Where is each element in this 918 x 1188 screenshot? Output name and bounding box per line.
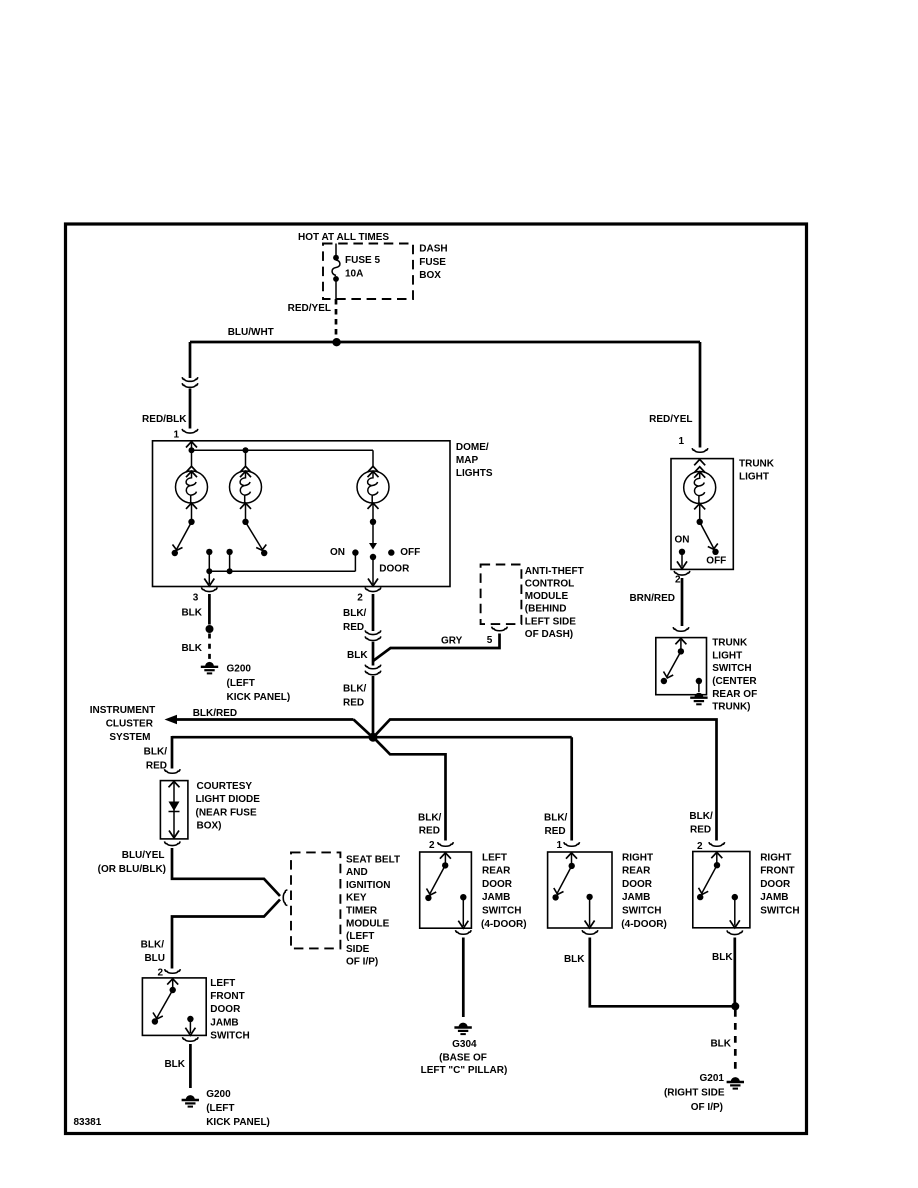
svg-text:BLK: BLK [712,952,733,963]
svg-text:CLUSTER: CLUSTER [106,719,154,730]
svg-text:BLU/WHT: BLU/WHT [228,327,274,338]
svg-text:TRUNK: TRUNK [739,458,775,469]
svg-text:1: 1 [556,840,562,851]
svg-text:IGNITION: IGNITION [346,880,390,891]
svg-text:83381: 83381 [74,1117,102,1128]
svg-text:BLK/: BLK/ [544,813,568,824]
svg-text:OF I/P): OF I/P) [691,1102,723,1113]
svg-text:(4-DOOR): (4-DOOR) [481,919,527,930]
svg-text:BLK/RED: BLK/RED [193,708,237,719]
svg-text:OFF: OFF [400,547,420,558]
svg-text:MAP: MAP [456,455,479,466]
svg-text:LIGHT DIODE: LIGHT DIODE [196,794,261,805]
svg-text:LIGHT: LIGHT [739,471,769,482]
svg-text:DOOR: DOOR [482,879,513,890]
svg-text:OF I/P): OF I/P) [346,957,378,968]
svg-text:RED/YEL: RED/YEL [288,303,331,314]
svg-text:BLK/: BLK/ [343,608,367,619]
svg-text:(CENTER: (CENTER [712,676,757,687]
svg-text:RED: RED [343,622,364,633]
svg-text:(LEFT: (LEFT [227,678,255,689]
svg-text:SWITCH: SWITCH [210,1030,249,1041]
svg-text:(NEAR FUSE: (NEAR FUSE [196,807,257,818]
svg-text:COURTESY: COURTESY [197,781,253,792]
svg-text:RED: RED [690,824,711,835]
svg-text:2: 2 [675,575,681,586]
svg-text:DOOR: DOOR [210,1004,241,1015]
svg-text:LEFT SIDE: LEFT SIDE [525,616,576,627]
svg-text:REAR: REAR [622,866,651,877]
svg-text:AND: AND [346,867,368,878]
svg-text:DOME/: DOME/ [456,442,489,453]
svg-text:BLK: BLK [181,607,202,618]
svg-text:DOOR: DOOR [622,879,653,890]
svg-text:RED: RED [419,825,440,836]
svg-text:LEFT: LEFT [482,852,507,863]
svg-text:2: 2 [697,841,703,852]
svg-text:DASH: DASH [419,243,447,254]
svg-text:GRY: GRY [441,636,463,647]
svg-text:CONTROL: CONTROL [525,579,574,590]
svg-text:DOOR: DOOR [760,879,791,890]
svg-text:BLK: BLK [181,643,202,654]
svg-text:1: 1 [678,436,684,447]
svg-text:RED: RED [146,761,167,772]
svg-text:SYSTEM: SYSTEM [109,732,150,743]
svg-text:SWITCH: SWITCH [622,906,661,917]
svg-text:RED/BLK: RED/BLK [142,414,187,425]
svg-text:REAR OF: REAR OF [712,689,757,700]
svg-text:OFF: OFF [706,555,726,566]
svg-text:BLU/YEL: BLU/YEL [122,850,165,861]
svg-text:BLU: BLU [144,953,165,964]
svg-text:(4-DOOR): (4-DOOR) [621,919,667,930]
svg-text:(BEHIND: (BEHIND [525,604,567,615]
svg-text:(LEFT: (LEFT [346,931,374,942]
svg-text:JAMB: JAMB [210,1017,238,1028]
svg-text:SIDE: SIDE [346,944,370,955]
svg-text:ON: ON [330,547,345,558]
svg-text:TRUNK): TRUNK) [712,702,750,713]
svg-text:LEFT: LEFT [210,978,235,989]
svg-text:2: 2 [357,592,363,603]
svg-text:JAMB: JAMB [482,892,510,903]
svg-text:BLK/: BLK/ [343,684,367,695]
svg-text:RED: RED [545,826,566,837]
svg-text:G201: G201 [700,1073,725,1084]
svg-text:SWITCH: SWITCH [712,663,751,674]
svg-text:BLK: BLK [564,954,585,965]
svg-text:RIGHT: RIGHT [622,852,653,863]
svg-text:KEY: KEY [346,893,367,904]
svg-text:BOX): BOX) [197,821,222,832]
svg-text:MODULE: MODULE [346,918,390,929]
svg-text:DOOR: DOOR [379,564,410,575]
svg-text:(LEFT: (LEFT [206,1103,234,1114]
svg-text:KICK PANEL): KICK PANEL) [206,1117,270,1128]
svg-text:BLK/: BLK/ [144,747,168,758]
svg-text:ON: ON [675,535,690,546]
svg-text:ANTI-THEFT: ANTI-THEFT [525,566,584,577]
svg-text:LIGHT: LIGHT [712,650,742,661]
svg-text:RIGHT: RIGHT [760,852,791,863]
svg-text:REAR: REAR [482,866,511,877]
svg-text:BRN/RED: BRN/RED [629,593,675,604]
svg-text:FRONT: FRONT [760,866,794,877]
svg-text:FUSE: FUSE [419,257,446,268]
svg-text:SWITCH: SWITCH [760,906,799,917]
svg-text:SEAT BELT: SEAT BELT [346,854,400,865]
svg-text:KICK PANEL): KICK PANEL) [227,692,291,703]
svg-text:3: 3 [193,592,199,603]
svg-text:SWITCH: SWITCH [482,906,521,917]
svg-text:BLK/: BLK/ [141,940,165,951]
svg-text:OF DASH): OF DASH) [525,629,573,640]
svg-text:BLK: BLK [347,650,368,661]
svg-text:(RIGHT SIDE: (RIGHT SIDE [664,1088,725,1099]
svg-text:2: 2 [157,967,163,978]
svg-text:TRUNK: TRUNK [712,638,748,649]
svg-text:10A: 10A [345,268,363,279]
svg-text:JAMB: JAMB [760,892,788,903]
svg-text:5: 5 [487,635,493,646]
svg-text:TIMER: TIMER [346,906,378,917]
svg-text:HOT AT ALL TIMES: HOT AT ALL TIMES [298,232,389,243]
svg-text:BLK: BLK [164,1059,185,1070]
svg-text:G200: G200 [206,1089,231,1100]
svg-text:FUSE 5: FUSE 5 [345,255,380,266]
svg-text:BLK: BLK [710,1039,731,1050]
svg-text:BLK/: BLK/ [689,811,713,822]
svg-text:G200: G200 [227,664,252,675]
svg-text:INSTRUMENT: INSTRUMENT [90,705,156,716]
svg-text:RED: RED [343,698,364,709]
svg-text:BLK/: BLK/ [418,813,442,824]
svg-text:LEFT "C" PILLAR): LEFT "C" PILLAR) [421,1065,508,1076]
svg-text:(BASE OF: (BASE OF [439,1053,487,1064]
svg-text:1: 1 [173,430,179,441]
svg-text:RED/YEL: RED/YEL [649,414,692,425]
svg-text:(OR BLU/BLK): (OR BLU/BLK) [98,864,166,875]
svg-text:MODULE: MODULE [525,591,569,602]
svg-text:G304: G304 [452,1039,477,1050]
svg-text:FRONT: FRONT [210,991,244,1002]
svg-text:JAMB: JAMB [622,892,650,903]
svg-text:BOX: BOX [419,270,441,281]
svg-text:LIGHTS: LIGHTS [456,468,493,479]
svg-text:2: 2 [429,840,435,851]
